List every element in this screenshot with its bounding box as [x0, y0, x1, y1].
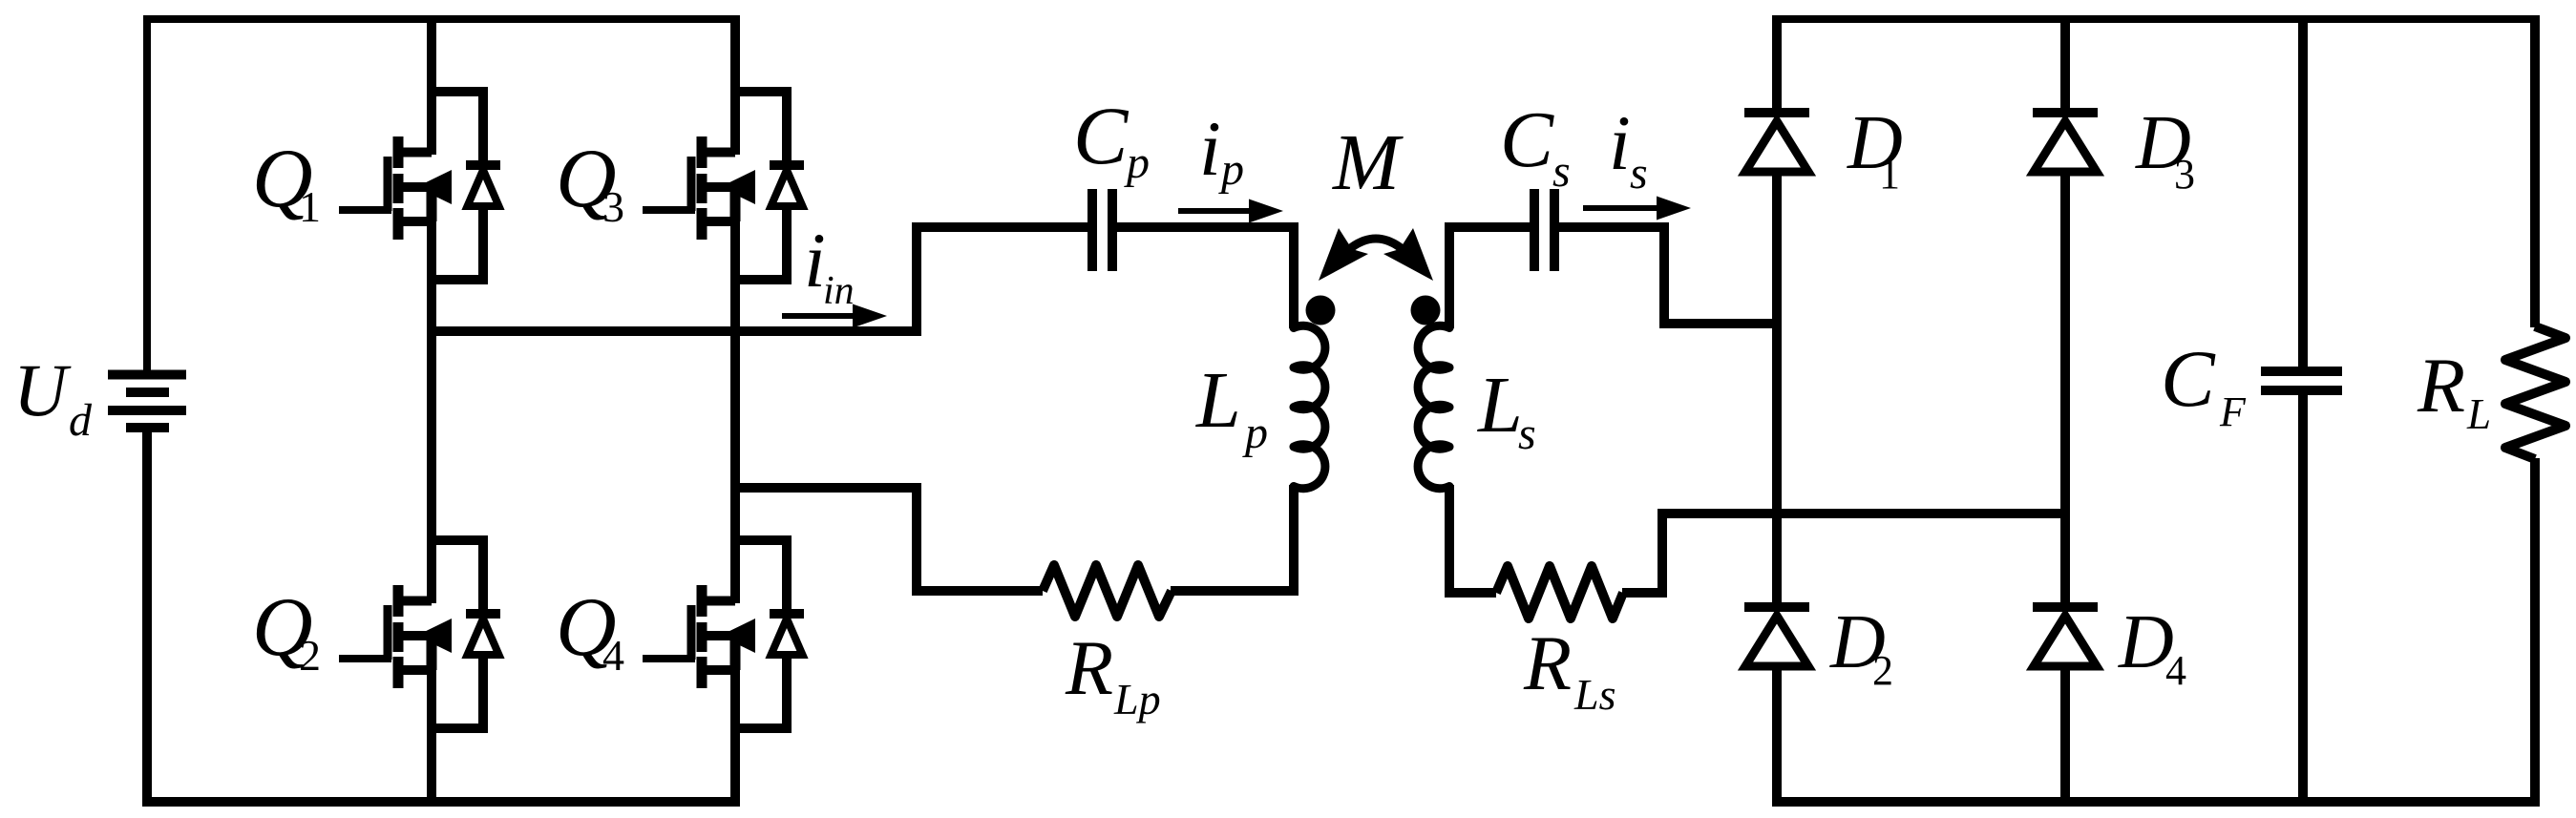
- label Q2: [252, 581, 321, 680]
- wire: left bridge leg lower (Q2 source): [427, 727, 436, 807]
- label Q3: [556, 133, 624, 231]
- svg-text:Ls: Ls: [1573, 670, 1615, 719]
- label R_Lp: [1065, 624, 1161, 724]
- wire: left bridge leg upper (Q1 drain): [427, 16, 436, 93]
- label i_in: [804, 217, 855, 313]
- wire: CF leg top: [2298, 16, 2308, 367]
- wire: inverter output B (right leg mid to tank bottom): [735, 483, 917, 493]
- battery Ud: [108, 375, 186, 429]
- svg-text:4: 4: [602, 631, 624, 680]
- svg-text:2: 2: [1872, 647, 1893, 694]
- svg-text:Lp: Lp: [1113, 675, 1161, 724]
- label D1: [1847, 101, 1903, 198]
- svg-text:s: s: [1630, 148, 1648, 199]
- label Ls: [1477, 361, 1536, 459]
- wire: rectifier top rail: [1772, 15, 2540, 23]
- resistor RL: [2505, 326, 2565, 459]
- arrow: mutual coupling M: [1319, 228, 1433, 281]
- svg-text:R: R: [1523, 619, 1572, 706]
- wire: D2 leg bottom: [1772, 666, 1782, 807]
- svg-text:3: 3: [602, 182, 624, 231]
- wire: primary tank bottom right: [1171, 586, 1294, 596]
- wire: D1-D2 leg: [1772, 172, 1782, 611]
- capacitor Cs: [1534, 189, 1554, 271]
- svg-text:C: C: [2161, 334, 2216, 424]
- svg-text:in: in: [823, 269, 855, 313]
- wire: primary tank top wire to Lp: [1117, 227, 1295, 328]
- wire: left bridge leg middle (Q1-Q2 junction): [427, 279, 436, 541]
- label RL: [2417, 342, 2491, 438]
- svg-text:p: p: [1242, 408, 1268, 458]
- wire: D3 leg top: [2060, 16, 2070, 116]
- transistor Q2: [339, 539, 500, 729]
- node: Lp polarity dot: [1306, 296, 1336, 325]
- wire: primary tank bottom left: [917, 483, 1043, 591]
- label Q4: [556, 581, 624, 680]
- wire: RL leg bottom: [2530, 458, 2540, 807]
- svg-text:2: 2: [299, 631, 321, 680]
- inductor Lp: [1294, 325, 1325, 489]
- wire: Ls bottom lead: [1449, 485, 1496, 593]
- svg-text:s: s: [1518, 409, 1536, 459]
- transistor Q3: [643, 91, 804, 281]
- label D4: [2118, 600, 2186, 694]
- svg-text:R: R: [1065, 624, 1113, 711]
- arrow i_s: [1583, 197, 1691, 220]
- label Cp: [1073, 90, 1150, 188]
- wire: RL leg top: [2530, 16, 2540, 327]
- svg-text:3: 3: [2174, 151, 2195, 198]
- label CF: [2161, 334, 2247, 435]
- label Q1: [252, 133, 321, 231]
- svg-text:p: p: [1124, 137, 1150, 188]
- inductor Ls: [1418, 325, 1449, 489]
- diode D2: [1744, 607, 1809, 666]
- node: Ls polarity dot: [1411, 296, 1441, 325]
- svg-text:p: p: [1218, 144, 1244, 195]
- label Ud: [13, 348, 93, 446]
- label D3: [2135, 101, 2195, 198]
- svg-text:M: M: [1332, 118, 1404, 207]
- label R_Ls: [1523, 619, 1615, 719]
- svg-text:L: L: [1477, 361, 1523, 450]
- svg-text:R: R: [2417, 342, 2465, 429]
- wire: D4 leg bottom: [2060, 666, 2070, 807]
- arrow i_in: [782, 304, 887, 328]
- wire: primary tank left riser: [917, 227, 1088, 336]
- svg-text:4: 4: [2165, 647, 2186, 694]
- resistor R_Lp: [1043, 565, 1172, 617]
- resistor R_Ls: [1496, 566, 1623, 619]
- wire: right bridge leg upper (Q3 drain): [730, 16, 740, 93]
- label i_s: [1609, 99, 1648, 199]
- svg-text:1: 1: [1879, 151, 1900, 198]
- svg-text:L: L: [1195, 356, 1241, 445]
- wire: right bridge leg lower (Q4 source): [730, 727, 740, 807]
- wire: Ls top lead: [1449, 227, 1531, 328]
- wire: Cs to rectifier input (upper): [1559, 227, 1778, 324]
- svg-text:C: C: [1500, 95, 1554, 184]
- label M: [1332, 118, 1404, 207]
- wire: D3-D4 leg: [2060, 172, 2070, 611]
- label i_p: [1199, 105, 1244, 195]
- transistor Q1: [339, 91, 500, 281]
- svg-text:L: L: [2466, 390, 2491, 438]
- label Cs: [1500, 95, 1571, 197]
- arrow i_p: [1178, 199, 1283, 223]
- label Lp: [1195, 356, 1268, 458]
- svg-text:s: s: [1552, 146, 1571, 197]
- wire: D1 leg top: [1772, 16, 1782, 116]
- wire: rectifier bottom rail: [1772, 797, 2540, 807]
- svg-text:1: 1: [299, 182, 321, 231]
- svg-text:U: U: [13, 348, 72, 431]
- diode D1: [1744, 113, 1809, 172]
- diode D4: [2033, 607, 2098, 666]
- wire: right bridge leg middle (Q3-Q4 junction): [730, 279, 740, 541]
- label D2: [1829, 600, 1893, 694]
- wire: inverter output A (mid rail to tank): [432, 326, 917, 336]
- svg-text:F: F: [2219, 388, 2247, 435]
- transistor Q4: [643, 539, 804, 729]
- wire: R_Ls to rectifier input (lower): [1622, 514, 2065, 593]
- wire: Lp bottom lead: [1289, 485, 1299, 596]
- svg-text:C: C: [1073, 90, 1130, 181]
- capacitor Cp: [1092, 189, 1112, 271]
- svg-text:i: i: [1609, 99, 1631, 186]
- svg-text:i: i: [1199, 105, 1221, 192]
- wire: DC bus bottom rail: [147, 430, 740, 802]
- svg-text:d: d: [69, 395, 93, 446]
- diode D3: [2033, 113, 2098, 172]
- wire: DC bus top rail: [147, 19, 740, 371]
- wire: CF leg bottom: [2298, 394, 2308, 807]
- capacitor CF: [2261, 371, 2342, 390]
